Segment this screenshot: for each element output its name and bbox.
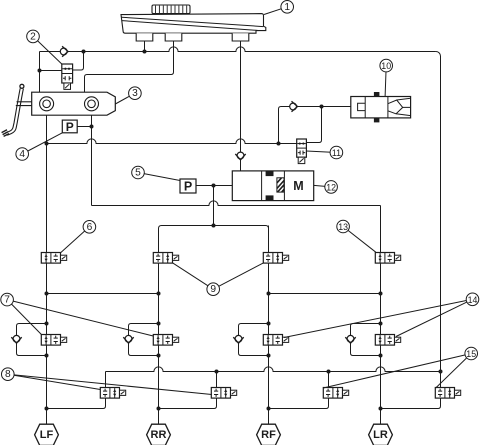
svg-text:3: 3 [132,88,138,99]
wire suction line MC1 to valve 11 [47,139,297,144]
label 2 valve [33,36,62,64]
solenoid valve 14 left [263,335,282,346]
brake pedal [6,88,20,132]
solenoid valve 9 left (RR inlet) [153,253,172,264]
master cylinder 3 [32,92,116,115]
svg-text:2: 2 [30,31,36,42]
wire master cylinder supply left [39,52,41,93]
wire release valve 4 bottom link [381,398,441,408]
junction bypass LF top [45,322,49,326]
wire MC2 output line [91,115,93,205]
pump 10 [374,92,380,97]
junction bypass LR bottom [379,354,383,358]
label 12 motor [314,185,331,187]
junction pump output tee [212,184,216,188]
wheel RR [147,424,171,445]
junction return riser 2 [215,370,219,374]
junction P4 tap [90,125,94,129]
wire bypass loop LR inlet valve [351,324,381,356]
wire release valve 2 bottom link [159,398,217,408]
label 11 valve [306,151,336,153]
junction RF bottom [267,407,271,411]
svg-text:11: 11 [332,148,341,158]
svg-text:9: 9 [210,284,216,295]
solenoid valve 8 left [100,388,119,399]
wire MC2 circuit line to LR [92,201,381,206]
junction RR bottom [157,407,161,411]
wire reservoir port 3 supply to pump unit [240,41,242,171]
wire valve2 right port [73,52,84,71]
junction RF link [267,292,271,296]
reservoir 1 [152,5,190,14]
svg-text:1: 1 [284,2,290,13]
wheel LF [35,424,59,445]
svg-text:4: 4 [19,149,25,160]
solenoid valve 2 [62,64,73,83]
junction return riser 3 [327,370,331,374]
label 5 sensor [138,173,180,181]
label 3 master cylinder [115,93,135,104]
wheel RF [257,424,281,445]
junction LR bottom [379,407,383,411]
wire bypass loop RR inlet valve [129,324,159,356]
wire pump suction riser [279,107,351,144]
check valve bypass RF [235,335,242,342]
svg-text:13: 13 [338,222,348,232]
pressure sensor P 5 [180,179,196,193]
label 8 valves [8,374,101,389]
junction bypass LR top [379,322,383,326]
wire P5 to motor unit [196,185,232,187]
solenoid valve 13 [375,253,394,264]
wire LR main line [380,206,382,425]
svg-text:6: 6 [87,222,93,233]
pressure sensor P 4 [62,120,77,133]
check valve bypass LR [347,335,354,342]
wire return line bottom [106,367,441,372]
check valve reservoir to pump [237,152,244,159]
svg-text:7: 7 [4,295,10,306]
svg-text:8: 8 [5,369,11,380]
svg-text:12: 12 [326,182,336,192]
wire RF main line [268,226,270,425]
svg-text:15: 15 [466,349,476,359]
junction bypass RF bottom [267,354,271,358]
wire P4 sensor link [77,126,91,128]
label 7 valves [7,300,41,335]
junction feed line middle [212,224,216,228]
solenoid valve 15 right [435,388,454,399]
svg-text:P: P [184,179,192,193]
label 4 sensor [22,133,62,154]
wire bypass loop RF inlet valve [239,324,269,356]
svg-text:LR: LR [373,429,388,441]
wire reservoir port 1 drop [144,41,146,52]
junction bypass RR top [157,322,161,326]
junction reservoir port1 [143,50,147,54]
label 14 valves [284,299,473,337]
label 1 reservoir [264,7,287,15]
wire release valve 1 bottom link [47,398,106,408]
label 15 valves [324,354,471,388]
wire release valve 2 riser [216,372,218,388]
label 10 pump [385,66,386,97]
check valve bypass RR [125,335,132,342]
solenoid valve 9 right (RF inlet) [263,253,282,264]
junction MC1 suction tee [45,142,49,146]
junction bypass LF bottom [45,354,49,358]
solenoid valve 8 right [211,388,230,399]
junction RR link [157,292,161,296]
solenoid valve 15 left [323,388,342,399]
solenoid valve 6 [41,253,60,264]
check valve pump suction [290,103,297,110]
solenoid valve 7 left [41,335,60,346]
wire RR main line [158,263,160,424]
junction pump suction riser [277,142,281,146]
wire reservoir port 2 return drop [85,41,174,92]
pushrod [17,101,32,103]
junction LF bottom [45,407,49,411]
junction valve2 left tee [38,69,42,73]
solenoid valve 7 right [153,335,172,346]
wire release valve 3 bottom link [269,398,329,408]
check valve beside valve 2 [60,48,67,55]
wire feed line to valves 9 [159,226,269,253]
svg-text:P: P [66,120,74,134]
wire pump output drop [213,186,215,226]
svg-text:5: 5 [135,168,141,179]
wire LF-RR link line [47,293,159,295]
wire supply line from reservoir [40,47,436,52]
svg-text:14: 14 [468,295,478,305]
label 9 valves [173,263,214,289]
wire release valve 3 riser [328,372,330,388]
wire valve2 left port [40,70,62,72]
junction LR link [379,292,383,296]
wire bypass loop LF inlet valve [17,324,47,356]
pump motor unit 12 (M) [232,171,313,201]
wire valve11 top link [306,107,321,143]
junction valve2 right riser [82,50,86,54]
solenoid valve 14 right [375,335,394,346]
solenoid valve 11 [297,139,307,157]
check valve bypass LF [13,335,20,342]
svg-text:RR: RR [151,429,167,441]
junction bypass RR bottom [157,354,161,358]
junction LF link [45,292,49,296]
label 13 valve [343,227,376,253]
svg-text:RF: RF [261,429,276,441]
svg-text:M: M [293,179,303,193]
junction bypass RF top [267,322,271,326]
junction valve11 link tap [320,105,324,109]
wire release valve 1 riser [105,372,107,388]
junction return riser 4 [439,370,443,374]
wire RF-LR link line [269,293,381,295]
svg-text:10: 10 [381,61,391,71]
wire reservoir return vertical [436,52,441,388]
wire LF main line [46,115,48,424]
label 6 valve [61,227,90,253]
svg-text:LF: LF [40,429,54,441]
wheel LR [369,424,393,445]
